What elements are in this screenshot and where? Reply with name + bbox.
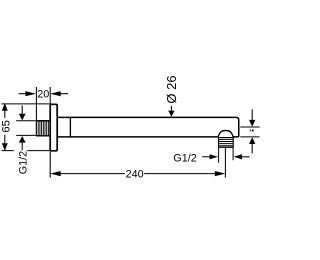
shower arm tube	[57, 117, 239, 136]
wall thread G1/2 (hatched stub, left)	[36, 121, 50, 136]
svg-text:65: 65	[1, 120, 13, 133]
Ø 26 leader arrow	[170, 106, 172, 111]
svg-text:G1/2: G1/2	[173, 152, 196, 164]
dimension 14 label (tiny)	[250, 129, 254, 131]
thread extension lines (left G1/2)	[16, 121, 36, 136]
outlet width arrow (pointing left at thread)	[234, 154, 242, 159]
outlet thread G1/2 (hatched, pointing down)	[219, 138, 234, 148]
svg-text:G1/2: G1/2	[17, 151, 29, 174]
right G1/2 arrow (pointing right at thread)	[202, 156, 210, 158]
dimension 14 down arrow	[251, 109, 253, 120]
dimension 65 extension lines	[2, 104, 50, 151]
tube collar seam	[69, 117, 71, 136]
dimension 240 line + arrows	[50, 171, 61, 176]
dimension 20 (left arrow)	[19, 93, 26, 95]
dimension 14 up arrow	[249, 137, 255, 144]
svg-text:240: 240	[126, 168, 144, 180]
dimension 240 extension lines	[50, 147, 225, 177]
left G1/2 up arrow	[19, 136, 26, 143]
svg-text:20: 20	[37, 88, 49, 100]
dimension 20 extension lines	[36, 87, 50, 121]
wall flange (escutcheon, side view)	[50, 104, 57, 151]
dimension 20 (right arrow)	[50, 91, 61, 96]
dimension 14 extension lines (right end)	[240, 127, 259, 137]
left G1/2 down arrow	[21, 105, 23, 114]
svg-text:Ø 26: Ø 26	[164, 75, 179, 103]
outlet dome	[218, 131, 233, 138]
outlet thread extension lines	[219, 148, 234, 163]
dimension 65 line + arrows	[4, 104, 6, 151]
